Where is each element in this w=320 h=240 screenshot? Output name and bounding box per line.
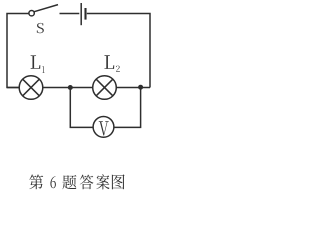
label L1 — [31, 55, 45, 73]
voltmeter letter V — [99, 121, 109, 135]
wire voltmeter branch right (V up to node B) — [114, 88, 141, 128]
node B junction dot (L2 right, voltmeter tap) — [138, 85, 143, 90]
node A junction dot (L1-L2, voltmeter tap) — [68, 85, 73, 90]
wire main series run through L1, node A, L2, node B — [7, 87, 150, 89]
voltmeter V — [93, 117, 114, 138]
switch S pivot contact — [29, 11, 34, 16]
wire voltmeter branch left (node A down to V) — [70, 88, 93, 128]
wire left vertical (battery negative to L1) — [7, 14, 29, 88]
wire switch to battery — [60, 13, 80, 15]
label L2 — [104, 55, 119, 71]
wire battery to top-right corner and down right side — [87, 14, 150, 88]
battery negative plate (short) — [84, 8, 86, 20]
lamp L2 — [93, 76, 117, 100]
caption: 第 6 题答案图 — [29, 174, 124, 189]
switch S lever (open) — [34, 5, 58, 12]
label S (switch) — [37, 23, 44, 33]
battery positive plate (long) — [80, 3, 82, 25]
lamp L1 — [19, 76, 43, 100]
